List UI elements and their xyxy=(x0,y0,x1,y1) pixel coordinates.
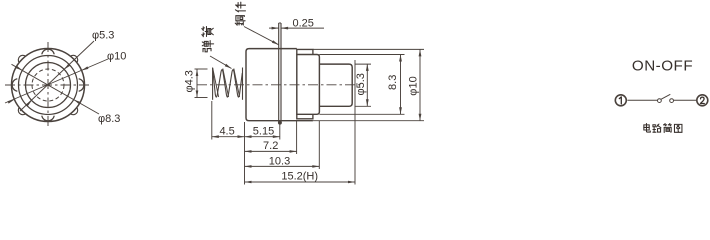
svg-text:10.3: 10.3 xyxy=(269,155,290,167)
svg-text:φ4.3: φ4.3 xyxy=(183,70,195,92)
svg-text:φ8.3: φ8.3 xyxy=(98,113,120,125)
svg-text:0.25: 0.25 xyxy=(293,18,314,30)
svg-text:φ10: φ10 xyxy=(107,50,126,62)
svg-text:7.2: 7.2 xyxy=(263,140,278,152)
svg-text:φ5.3: φ5.3 xyxy=(92,30,114,42)
svg-text:15.2(H): 15.2(H) xyxy=(281,171,318,183)
svg-text:φ10: φ10 xyxy=(408,76,420,95)
svg-text:φ5.3: φ5.3 xyxy=(355,73,367,95)
svg-text:5.15: 5.15 xyxy=(253,125,274,137)
svg-text:ON-OFF: ON-OFF xyxy=(632,57,693,74)
svg-text:8.3: 8.3 xyxy=(387,75,399,90)
svg-text:4.5: 4.5 xyxy=(219,125,234,137)
